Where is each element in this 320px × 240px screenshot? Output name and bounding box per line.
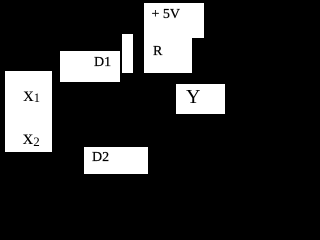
wire bar node [122,34,133,73]
diode D2 label box [84,147,148,175]
value label +5V [152,7,181,23]
input x1 x2 label box [5,71,52,152]
value label x1 [23,82,40,107]
value label R [153,44,162,60]
output Y label box [176,84,225,114]
node +5V supply label box [144,3,204,38]
value label Y [186,86,200,109]
diode D1 label box [60,51,120,82]
value label D1 [94,55,111,71]
value label x2 [23,125,40,150]
value label D2 [92,150,109,166]
resistor R label box [144,36,192,73]
